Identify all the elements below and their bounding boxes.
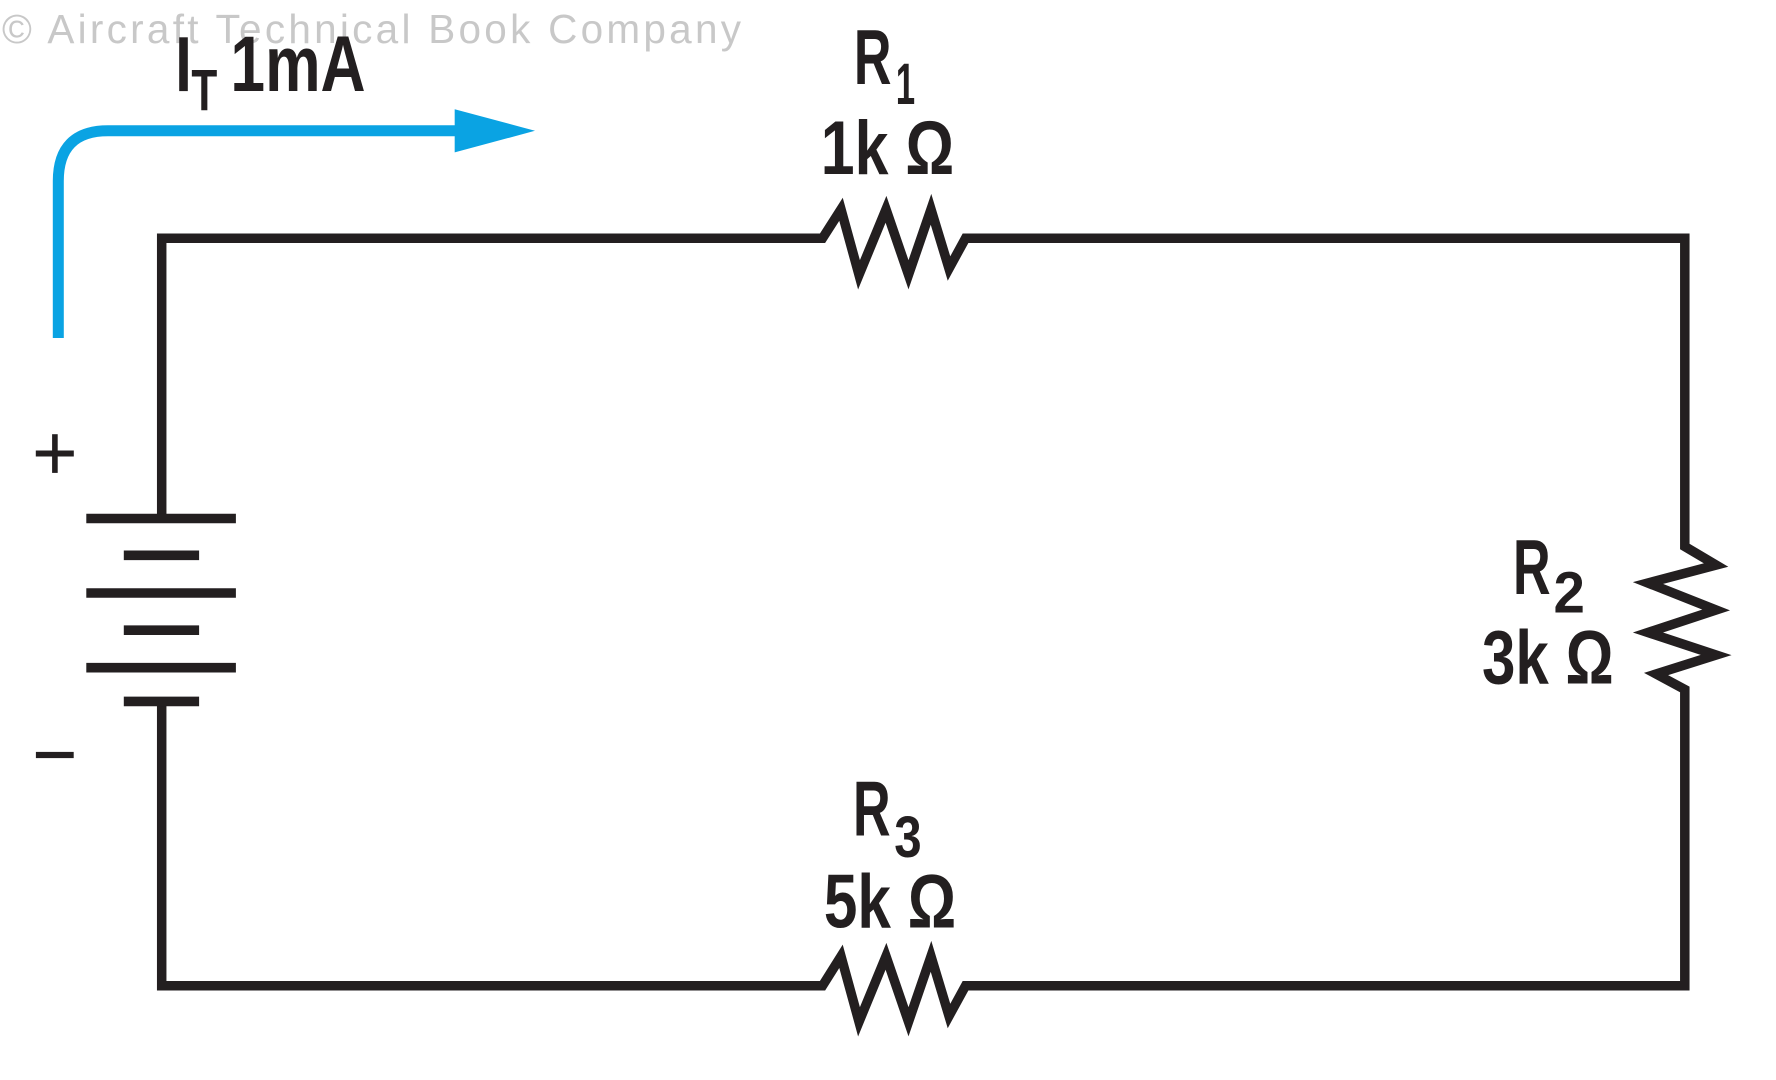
svg-text:1mA: 1mA (230, 19, 365, 108)
svg-text:R: R (1513, 523, 1551, 611)
svg-text:R: R (854, 13, 892, 101)
svg-text:R: R (853, 765, 891, 853)
svg-text:© Aircraft Technical Book Comp: © Aircraft Technical Book Company (2, 6, 742, 52)
svg-text:3k Ω: 3k Ω (1482, 616, 1614, 701)
svg-text:T: T (191, 59, 217, 124)
svg-text:5k Ω: 5k Ω (824, 859, 956, 944)
svg-text:1k Ω: 1k Ω (821, 106, 954, 191)
